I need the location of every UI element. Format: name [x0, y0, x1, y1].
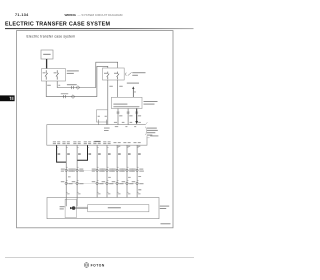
- wire x107.0: [106, 145, 108, 197]
- arrow into control unit: [135, 109, 138, 125]
- wires into motor: [66, 198, 77, 207]
- header WIRING - SYSTEM CIRCUIT DIAGRAM: [65, 13, 123, 17]
- chapter tab 71: [0, 95, 15, 101]
- label start signal: [127, 83, 139, 84]
- fusible link FL1: [45, 70, 48, 79]
- detection switch label: [108, 207, 121, 208]
- connector circles row2: [65, 182, 138, 184]
- wire x97.1: [96, 145, 98, 197]
- transfer motor: [70, 206, 75, 210]
- wire x117.1: [116, 145, 118, 197]
- wire fuse1 feed (lower): [46, 66, 108, 96]
- labels on switch wires: [119, 114, 141, 117]
- svg-text:— SYSTEM CIRCUIT DIAGRAM: — SYSTEM CIRCUIT DIAGRAM: [78, 13, 123, 17]
- connector label: [67, 84, 77, 85]
- wire P4 U-turn: [77, 145, 87, 160]
- circle row2 labels: [61, 181, 144, 184]
- mid labels: [68, 176, 141, 178]
- labels above control box top: [114, 121, 141, 124]
- wire IG to shift switch: [117, 80, 119, 97]
- label ignition switch: [132, 72, 145, 76]
- svg-text:WIRING: WIRING: [65, 13, 77, 17]
- battery wire: [46, 59, 48, 69]
- label right of assembly: [160, 206, 169, 209]
- svg-text:FOTON: FOTON: [91, 264, 105, 268]
- pin labels inside top: [104, 126, 136, 131]
- start signal arrow: [132, 86, 134, 97]
- motor label: [60, 206, 65, 209]
- svg-text:Electric transfer case system: Electric transfer case system: [27, 35, 76, 39]
- bottom wires: [57, 145, 138, 197]
- fusible link block: [42, 69, 66, 81]
- motor link lines: [76, 207, 88, 209]
- ticks above circles row1: [66, 166, 138, 168]
- footer rule: [5, 256, 194, 259]
- wire IG to control unit: [107, 80, 109, 125]
- connector ticks on feed: [64, 86, 74, 98]
- label B-W: [47, 84, 60, 87]
- battery: [41, 50, 53, 59]
- pin label row: [53, 141, 141, 147]
- fusible link FL2: [56, 70, 59, 79]
- label right of switch box: [144, 101, 158, 105]
- harness line row1: [66, 169, 137, 171]
- connector ticks on switch wires: [117, 112, 139, 113]
- labels above bottom box: [67, 192, 140, 195]
- connector circles row1: [65, 169, 138, 171]
- wire code labels: [58, 153, 141, 155]
- motor sub box: [65, 199, 76, 217]
- wire x137.1: [136, 145, 138, 197]
- labels on ignition outputs: [109, 85, 122, 88]
- svg-text:ELECTRIC TRANSFER CASE SYSTEM: ELECTRIC TRANSFER CASE SYSTEM: [5, 22, 111, 28]
- wires shift switch to control unit: [118, 109, 128, 125]
- ignition switch: [126, 72, 132, 75]
- label fusible link block: [67, 70, 79, 74]
- footer logo: [84, 263, 105, 268]
- ignition fuse box: [103, 68, 125, 80]
- wire x127.0: [126, 145, 128, 197]
- pin ticks into bottom box: [66, 191, 139, 193]
- wire x77.1: [76, 145, 78, 197]
- 4WD switch box: [97, 110, 108, 122]
- detection switch box: [88, 205, 149, 212]
- harness line row2: [66, 182, 137, 184]
- pin ticks below box: [57, 147, 139, 149]
- transfer shift switch box: [111, 97, 142, 108]
- wire fuse2 feed (upper): [57, 62, 117, 87]
- fuse F2: [117, 72, 119, 80]
- connector diamond: [76, 86, 80, 90]
- circle row1 labels: [61, 169, 144, 172]
- transfer assembly box: [47, 198, 159, 219]
- control unit brace: [145, 127, 147, 135]
- transfer shift control unit box: [47, 125, 147, 146]
- wire P1 U-turn: [57, 145, 67, 162]
- wire x66.2: [65, 145, 67, 197]
- fuse F1: [107, 72, 109, 80]
- svg-text:71-134: 71-134: [15, 13, 29, 17]
- label control unit: [147, 128, 158, 136]
- title rule: [5, 28, 194, 29]
- drawing number: [161, 223, 171, 224]
- ticks above circles row2: [66, 179, 138, 181]
